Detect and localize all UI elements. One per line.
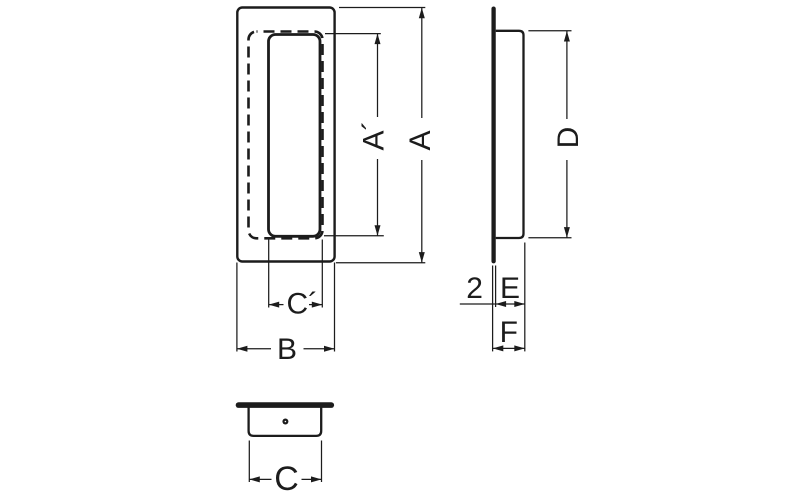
dimension line F [493, 347, 525, 349]
svg-text:C: C [274, 460, 299, 496]
extension line A bottom [336, 262, 425, 264]
extension line C left [248, 441, 250, 483]
arrow E left [496, 301, 507, 307]
bottom view faceplate (thick line) [239, 402, 332, 408]
arrow E right [514, 301, 525, 307]
extension line C' left [268, 238, 270, 308]
dimension line C [249, 478, 271, 480]
arrow A down [419, 252, 425, 263]
extension line A top [339, 7, 425, 9]
svg-text:A: A [404, 130, 437, 150]
dimension line D [566, 31, 568, 119]
arrow B right [324, 346, 335, 352]
front view hidden recess (dashed rectangle) [249, 32, 323, 239]
extension line A' top [325, 33, 381, 35]
bottom view cup profile [249, 407, 322, 436]
extension line E/F right [524, 243, 526, 352]
extension line C right [321, 441, 323, 483]
side view faceplate edge (thick line) [491, 9, 495, 262]
extension line thickness front [492, 266, 494, 352]
arrow B left [237, 346, 248, 352]
arrow D down [564, 227, 570, 238]
arrow C right [311, 476, 322, 482]
svg-text:C´: C´ [287, 288, 319, 321]
arrow C left [249, 476, 259, 482]
extension line D top [528, 30, 571, 32]
arrow A' up [375, 34, 381, 45]
svg-text:2: 2 [466, 272, 483, 305]
side view recess cup profile [496, 31, 524, 238]
svg-text:F: F [500, 316, 518, 349]
extension line B left [236, 263, 238, 352]
extension line D bottom [528, 237, 571, 239]
dimension line A [421, 8, 423, 118]
arrow F right [514, 345, 525, 351]
dimension line C' [269, 304, 284, 306]
svg-text:D: D [552, 127, 585, 149]
arrow C' right [312, 302, 323, 308]
extension line B right [334, 263, 336, 352]
arrow C' left [269, 302, 280, 308]
leader line for 2 [460, 303, 495, 305]
svg-text:B: B [277, 333, 297, 366]
arrow A up [419, 8, 425, 18]
screw hole dot [282, 419, 288, 425]
svg-text:E: E [500, 272, 520, 305]
arrow F left [493, 345, 504, 351]
dimension line A' [377, 34, 379, 117]
front view outer faceplate rectangle [237, 8, 334, 262]
dimension line B [237, 348, 271, 350]
extension line thickness back [495, 266, 497, 308]
extension line A' bottom [324, 235, 384, 237]
dimension line E [496, 303, 525, 305]
arrow A' down [375, 225, 381, 236]
svg-text:A´: A´ [358, 121, 391, 151]
extension line C' right [321, 240, 323, 308]
arrow D up [564, 31, 570, 42]
front view inner opening rectangle [269, 35, 321, 237]
